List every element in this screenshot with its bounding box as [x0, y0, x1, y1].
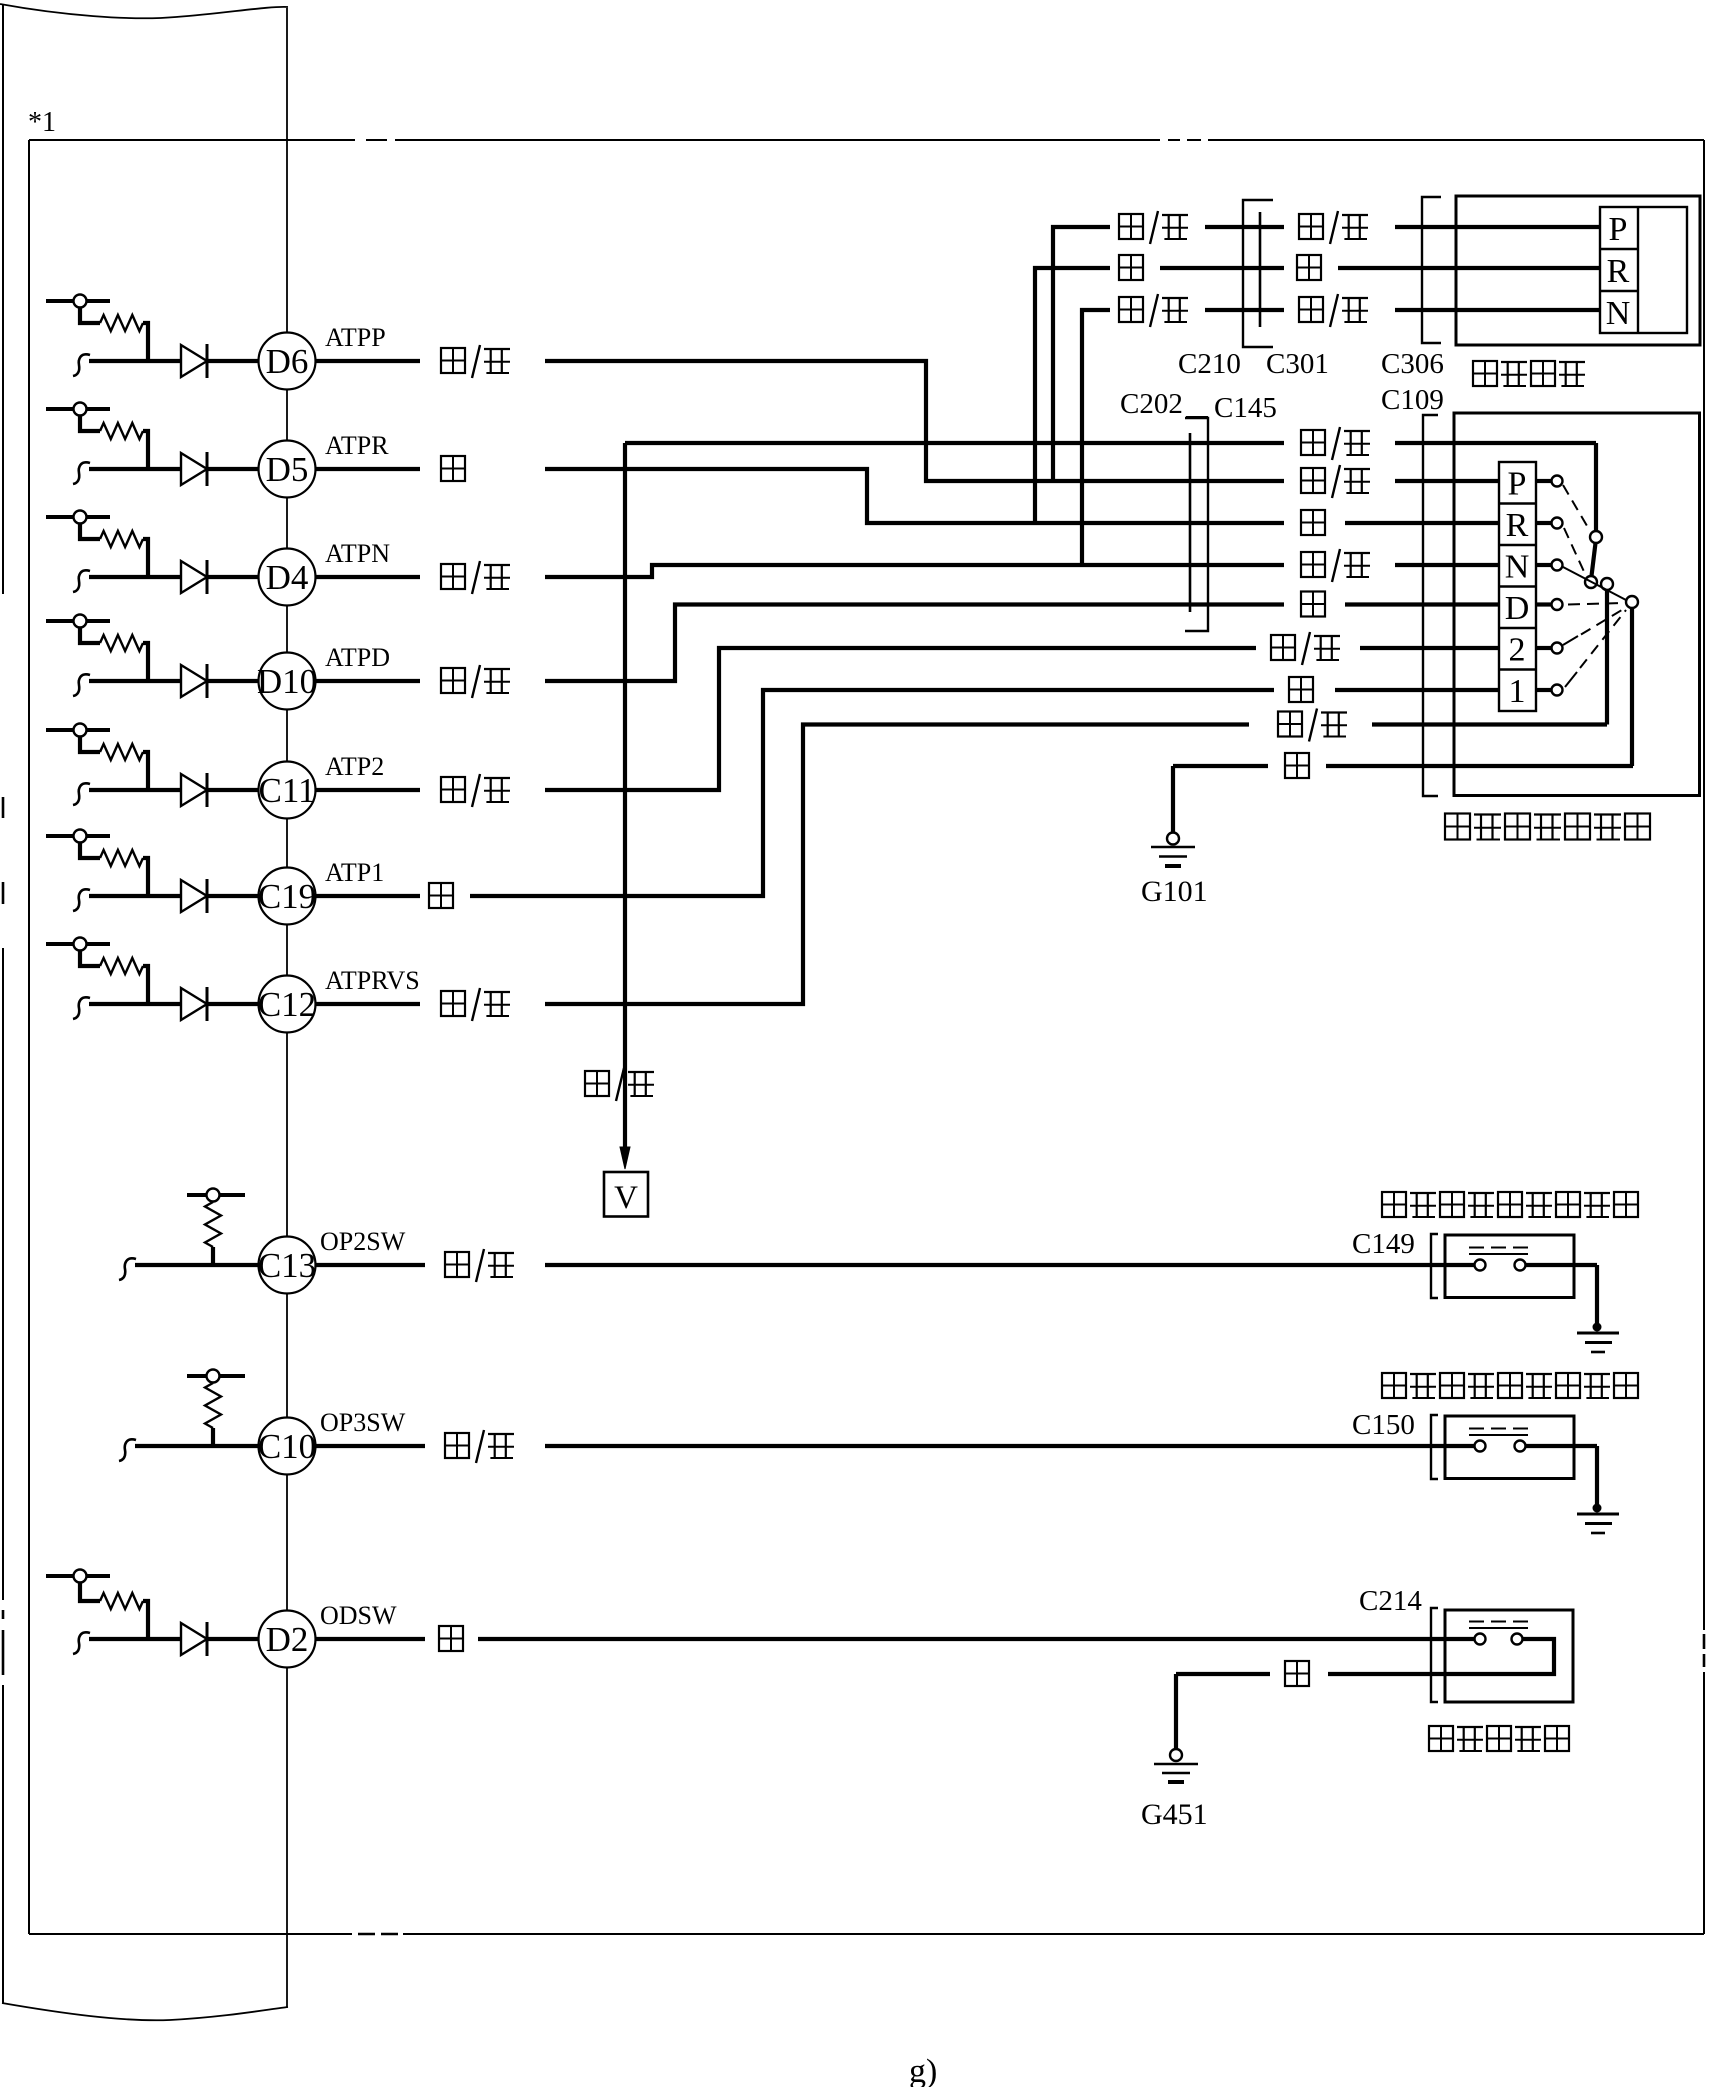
- wire colour label red/white at gear switch: [1278, 712, 1302, 737]
- pin C13 terminal circle on ECU bus: [259, 1237, 316, 1294]
- switch S-C12 tap terminal circle: [74, 938, 87, 951]
- wire yellow into gear position switch: [1345, 602, 1499, 606]
- svg-text:D4: D4: [266, 558, 309, 597]
- wire from R-D4 down to node D4: [143, 539, 148, 577]
- resistor R-C10 (vertical): [205, 1383, 221, 1428]
- wire ODSW green to overdrive switch C214: [478, 1637, 1474, 1641]
- switch S-D4 pull-up tap line: [46, 515, 110, 519]
- pin C11 terminal circle on ECU bus: [259, 762, 316, 819]
- gear switch fixed contact at y=604.5: [1536, 602, 1551, 606]
- wire red/white into gear position switch: [1372, 722, 1607, 726]
- 3rd clutch pressure switch box: [1445, 1416, 1574, 1479]
- resistor R-C13 (vertical): [205, 1202, 221, 1247]
- wire C12 row from switch to diode: [89, 1002, 181, 1006]
- pressure switch bridge bar C150: [1469, 1434, 1528, 1436]
- wire D2 row from switch to diode: [89, 1637, 181, 1641]
- wire D6 ATPP to junction, down and right to gear-switch row P (blue/black): [545, 361, 1284, 481]
- wire colour label black/red at C210 left: [1119, 297, 1143, 322]
- switch S-D4 moving contact hook: [73, 570, 90, 592]
- wire into instrument cluster row2: [1338, 266, 1600, 270]
- pivot circle of rotary selector: [1626, 596, 1638, 608]
- pin D5 terminal circle on ECU bus: [259, 441, 316, 498]
- wire colour label blue/black at gear switch: [1301, 468, 1325, 493]
- svg-text:N: N: [1505, 549, 1530, 586]
- svg-text:OP3SW: OP3SW: [320, 1408, 406, 1437]
- resistor R-C11: [100, 744, 143, 760]
- switch S-C10 tap terminal circle: [207, 1370, 220, 1383]
- switch S-C19 moving contact hook: [73, 889, 90, 911]
- wiper joint circle upper: [1590, 531, 1602, 543]
- switch S-C12 pull-up tap line: [46, 942, 110, 946]
- wire from S-D6 terminal down to resistor R-D6: [80, 308, 100, 324]
- wire OP2SW blue/red to pressure switch C149: [545, 1263, 1474, 1267]
- diode VD-D10: [181, 665, 207, 697]
- wire colour label white at C306 left: [1297, 255, 1321, 280]
- svg-text:C150: C150: [1352, 1409, 1415, 1441]
- wire from S-D4 terminal down to resistor R-D4: [80, 524, 100, 540]
- resistor R-C12: [100, 958, 143, 974]
- svg-text:ATP1: ATP1: [325, 858, 384, 887]
- ground G101 symbol: [1167, 833, 1179, 845]
- torn page strip bottom wavy edge: [2, 2003, 288, 2020]
- ECU bus vertical line: [286, 8, 288, 2007]
- wire blue/white row from test-lead junction to gear switch: [625, 441, 1284, 445]
- wire light-green test lead from blue/white row down to voltmeter: [623, 443, 627, 1148]
- wire C19 row from diode to pin circle: [207, 894, 260, 898]
- wire from R-C12 down to node C12: [143, 966, 148, 1004]
- diode VD-D5: [181, 453, 207, 485]
- wire into instrument cluster row1: [1395, 225, 1600, 229]
- svg-text:C12: C12: [258, 985, 316, 1024]
- wire colour label for D4: [441, 564, 465, 589]
- wire D2 row from diode to pin circle: [207, 1637, 260, 1641]
- diode VD-C19: [181, 880, 207, 912]
- wire from S-C19 terminal down to resistor R-C19: [80, 843, 100, 859]
- svg-text:G451: G451: [1141, 1798, 1208, 1831]
- torn page strip top wavy edge: [0, 4, 288, 18]
- wire colour label green for D2: [439, 1626, 463, 1651]
- red/white riser from wiper down to red/white row: [1605, 590, 1609, 725]
- pin D4 terminal circle on ECU bus: [259, 549, 316, 606]
- pressure switch contacts C149: [1475, 1260, 1486, 1271]
- switch S-C11 moving contact hook: [73, 783, 90, 805]
- svg-text:C301: C301: [1266, 348, 1329, 380]
- rotary selector dashed travel 1: [1565, 672, 1577, 687]
- pin D10 terminal circle on ECU bus: [259, 653, 316, 710]
- wire C11 row from switch to diode: [89, 788, 181, 792]
- svg-text:g): g): [909, 2053, 937, 2087]
- svg-text:OP2SW: OP2SW: [320, 1227, 406, 1256]
- label 2nd-gear clutch pressure switch: [1382, 1192, 1406, 1217]
- transmission gear position switch box: [1454, 413, 1700, 796]
- diode VD-C12: [181, 988, 207, 1020]
- svg-text:R: R: [1607, 253, 1630, 290]
- rotary selector dashed travel P: [1563, 485, 1590, 531]
- wire riser from blue/black row up to connector C210: [1053, 227, 1110, 481]
- wire D10 row from pin circle to colour label: [314, 679, 420, 683]
- svg-text:C13: C13: [258, 1246, 316, 1285]
- wire C19 ATP1 up to gear-switch row 1 (brown): [470, 690, 1274, 896]
- wire C12 row from diode to pin circle: [207, 1002, 260, 1006]
- wire C13 row from switch to pin circle: [135, 1263, 260, 1267]
- ground G451 symbol: [1170, 1749, 1182, 1761]
- switch S-D2 moving contact hook: [73, 1632, 90, 1654]
- switch S-D10 tap terminal circle: [74, 615, 87, 628]
- gear switch fixed contact at y=648: [1536, 646, 1551, 650]
- label instrument cluster assembly: [1473, 361, 1497, 386]
- wire from S-C12 terminal down to resistor R-C12: [80, 951, 100, 967]
- ground symbol at C150: [1593, 1504, 1602, 1513]
- wire from R-D10 down to node D10: [143, 643, 148, 681]
- label transmission gear position switch: [1445, 814, 1470, 840]
- wire from R-C13 to node: [211, 1247, 215, 1265]
- wire C10 row from switch to pin circle: [135, 1444, 260, 1448]
- svg-text:C11: C11: [258, 771, 315, 810]
- rotary selector dashed travel D: [1568, 603, 1623, 605]
- connector C301 mating pin line: [1259, 212, 1262, 327]
- wire white into gear position switch: [1345, 521, 1499, 525]
- wire colour label blue/black at C210 left: [1119, 214, 1143, 239]
- wire stubs through connector C210-C301 row2: [1160, 266, 1284, 270]
- switch S-D10 pull-up tap line: [46, 619, 110, 623]
- wire colour label for D5: [441, 456, 465, 481]
- wire D5 ATPR to junction, down and right to gear-switch row R (white): [545, 469, 1284, 523]
- wire D6 row from pin circle to colour label: [314, 359, 420, 363]
- svg-text:D10: D10: [257, 662, 317, 701]
- wire red/black into gear position switch: [1395, 563, 1499, 567]
- resistor R-D4: [100, 531, 143, 547]
- switch S-C13 pull-up tap line: [187, 1193, 245, 1197]
- svg-text:N: N: [1606, 295, 1631, 332]
- connector C150 half-shell: [1431, 1415, 1438, 1479]
- svg-text:ATP2: ATP2: [325, 752, 384, 781]
- wire from R-D2 down to node D2: [143, 1601, 148, 1639]
- wire D10 row from switch to diode: [89, 679, 181, 683]
- wire from R-C10 to node: [211, 1428, 215, 1446]
- wire C12 ATPRVS up to gear-switch common row (red/white): [545, 725, 1249, 1005]
- svg-text:V: V: [614, 1180, 638, 1216]
- page border right edge with break marks: [1703, 140, 1705, 1630]
- wire colour label black at overdrive switch: [1285, 1661, 1309, 1686]
- wire D4 ATPN with jog up to gear-switch row N (black/red): [545, 565, 1284, 577]
- ground symbol at C149: [1593, 1323, 1602, 1332]
- wire blue/black into gear position switch: [1395, 479, 1499, 483]
- wiper joint circle for red/white riser: [1601, 578, 1613, 590]
- switch S-D5 tap terminal circle: [74, 403, 87, 416]
- gear switch fixed contact at y=523: [1536, 521, 1551, 525]
- voltmeter V box: [604, 1172, 648, 1217]
- wire C19 row from switch to diode: [89, 894, 181, 898]
- svg-text:P: P: [1609, 211, 1628, 248]
- wire stubs through connector C210-C301 row3: [1205, 308, 1284, 312]
- page border left edge: [28, 140, 30, 1934]
- wire D4 row from pin circle to colour label: [314, 575, 420, 579]
- svg-text:C19: C19: [258, 877, 316, 916]
- instrument cluster PRN indicator cells: [1600, 207, 1687, 333]
- wire colour label for D10: [441, 668, 465, 693]
- wire D5 row from diode to pin circle: [207, 467, 260, 471]
- wire colour label white at gear switch: [1301, 510, 1325, 535]
- connector C202 mating pin line: [1189, 433, 1192, 612]
- wire D5 row from pin circle to colour label: [314, 467, 420, 471]
- wire C12 row from pin circle to colour label: [314, 1002, 420, 1006]
- diode VD-C11: [181, 774, 207, 806]
- resistor R-D2: [100, 1593, 143, 1609]
- connector C149 half-shell: [1431, 1234, 1438, 1298]
- switch S-C11 pull-up tap line: [46, 728, 110, 732]
- wire riser from black/red row up to connector C210: [1082, 310, 1110, 565]
- resistor R-D6: [100, 315, 143, 331]
- diode VD-D2: [181, 1623, 207, 1655]
- wire D2 row from pin circle to colour label: [314, 1637, 425, 1641]
- wire black row from ground riser to label: [1173, 764, 1268, 768]
- wire C13 row from pin circle to colour label: [314, 1263, 425, 1267]
- gear switch fixed contact at y=690: [1536, 688, 1551, 692]
- wire D5 row from switch to diode: [89, 467, 181, 471]
- overdrive switch bridge bar: [1469, 1627, 1528, 1629]
- wire from R-C11 down to node C11: [143, 752, 148, 790]
- wiper arm: [1592, 543, 1596, 576]
- connector C306 half-shell: [1422, 197, 1441, 343]
- page border top edge with break marks: [29, 139, 355, 141]
- wire C11 row from pin circle to colour label: [314, 788, 420, 792]
- wire colour label for C11: [441, 777, 465, 802]
- switch S-D5 pull-up tap line: [46, 407, 110, 411]
- svg-text:C306: C306: [1381, 348, 1444, 380]
- wire blue/white into gear position switch: [1395, 441, 1596, 445]
- resistor R-D5: [100, 423, 143, 439]
- svg-text:ATPN: ATPN: [325, 539, 390, 568]
- wire black return from switch to label: [1328, 1672, 1445, 1676]
- wire from R-D6 down to node D6: [143, 323, 148, 361]
- wire D4 row from diode to pin circle: [207, 575, 260, 579]
- switch S-D2 pull-up tap line: [46, 1574, 110, 1578]
- svg-text:ATPD: ATPD: [325, 643, 390, 672]
- 2nd clutch pressure switch box: [1445, 1235, 1574, 1298]
- wire colour label black/red at C306 left: [1299, 297, 1323, 322]
- wire D4 row from switch to diode: [89, 575, 181, 579]
- switch S-C19 pull-up tap line: [46, 834, 110, 838]
- switch S-C12 moving contact hook: [73, 997, 90, 1019]
- switch S-D6 moving contact hook: [73, 354, 90, 376]
- pin C19 terminal circle on ECU bus: [259, 868, 316, 925]
- wire D6 row from diode to pin circle: [207, 359, 260, 363]
- torn page strip left edge: [2, 4, 4, 594]
- black riser from pivot down to black row: [1630, 608, 1634, 766]
- svg-text:C149: C149: [1352, 1228, 1415, 1260]
- svg-text:ATPR: ATPR: [325, 431, 389, 460]
- svg-text:ODSW: ODSW: [320, 1601, 397, 1630]
- page border bottom edge with break marks: [29, 1933, 352, 1935]
- wire colour label white at C210 left: [1119, 255, 1143, 280]
- switch S-C10 pull-up tap line: [187, 1374, 245, 1378]
- overdrive switch box: [1445, 1610, 1573, 1702]
- wire colour label for C13: [445, 1252, 469, 1277]
- svg-text:C10: C10: [258, 1427, 316, 1466]
- pin D6 terminal circle on ECU bus: [259, 333, 316, 390]
- connector C214 half-shell: [1431, 1608, 1438, 1702]
- svg-text:R: R: [1506, 507, 1529, 544]
- svg-text:D6: D6: [266, 342, 309, 381]
- label overdrive switch: [1429, 1726, 1453, 1751]
- connector C145 half-shell: [1185, 418, 1208, 631]
- switch S-D2 tap terminal circle: [74, 1570, 87, 1583]
- overdrive switch contacts: [1475, 1634, 1486, 1645]
- switch S-C13 tap terminal circle: [207, 1189, 220, 1202]
- svg-text:D2: D2: [266, 1620, 309, 1659]
- wire stubs through connector C210-C301 row1: [1205, 225, 1284, 229]
- wire C11 ATP2 up to gear-switch row 2 (green/red): [545, 648, 1256, 790]
- wire black return to ground G451: [1176, 1672, 1270, 1676]
- label 3rd-gear clutch pressure switch: [1382, 1373, 1406, 1398]
- connector C210 half-shell: [1243, 200, 1273, 347]
- svg-text:C109: C109: [1381, 384, 1444, 416]
- wire from R-C19 down to node C19: [143, 858, 148, 896]
- instrument cluster box: [1456, 196, 1700, 345]
- switch S-D4 tap terminal circle: [74, 511, 87, 524]
- rotary selector link N contact to pivot: [1563, 567, 1626, 600]
- svg-text:C210: C210: [1178, 348, 1241, 380]
- switch S-D6 tap terminal circle: [74, 295, 87, 308]
- switch S-C13 moving contact hook: [119, 1258, 136, 1280]
- wire OP3SW blue/white to pressure switch C150: [545, 1444, 1474, 1448]
- rotary selector dashed travel 2: [1563, 636, 1578, 645]
- wire colour label blue/black at C306 left: [1299, 214, 1323, 239]
- switch S-C11 tap terminal circle: [74, 724, 87, 737]
- pin C10 terminal circle on ECU bus: [259, 1418, 316, 1475]
- gear switch PRND21 cell column: [1499, 462, 1536, 711]
- gear switch fixed contact at y=565: [1536, 563, 1551, 567]
- svg-text:C202: C202: [1120, 388, 1183, 420]
- wire from S-D5 terminal down to resistor R-D5: [80, 416, 100, 432]
- svg-text:2: 2: [1509, 632, 1526, 669]
- wire colour label green/red at gear switch: [1271, 635, 1295, 660]
- pin D2 terminal circle on ECU bus: [259, 1611, 316, 1668]
- wire colour label yellow at gear switch: [1301, 592, 1325, 617]
- wire colour label black at gear switch: [1285, 753, 1309, 778]
- wire colour label light/green: [585, 1071, 609, 1096]
- resistor R-C19: [100, 850, 143, 866]
- wire from overdrive switch looping to black return: [1445, 1639, 1554, 1674]
- wire into instrument cluster row3: [1395, 308, 1600, 312]
- wire from S-D10 terminal down to resistor R-D10: [80, 628, 100, 644]
- wire colour label for C12: [441, 991, 465, 1016]
- wire C10 row from pin circle to colour label: [314, 1444, 425, 1448]
- wire from S-C11 terminal down to resistor R-C11: [80, 737, 100, 753]
- pressure switch contacts C150: [1475, 1441, 1486, 1452]
- diode VD-D4: [181, 561, 207, 593]
- switch S-C10 moving contact hook: [119, 1439, 136, 1461]
- resistor R-D10: [100, 635, 143, 651]
- wire colour label red/black at gear switch: [1301, 552, 1325, 577]
- wire D10 row from diode to pin circle: [207, 679, 260, 683]
- wire C19 row from pin circle to colour label: [314, 894, 420, 898]
- wire colour label for D6: [441, 348, 465, 373]
- wire colour label brown at gear switch: [1289, 677, 1313, 702]
- svg-text:D: D: [1505, 590, 1530, 627]
- wire from C150 to ground: [1526, 1444, 1597, 1448]
- svg-text:*1: *1: [28, 107, 56, 138]
- connector C109 half-shell: [1423, 415, 1438, 796]
- svg-text:D5: D5: [266, 450, 309, 489]
- svg-text:ATPP: ATPP: [325, 323, 386, 352]
- switch S-C19 tap terminal circle: [74, 830, 87, 843]
- svg-text:1: 1: [1509, 673, 1526, 710]
- wire from C149 to ground: [1526, 1263, 1597, 1267]
- wire D10 ATPD up to gear-switch row D (yellow): [545, 605, 1284, 682]
- wire black into gear position switch: [1326, 764, 1633, 768]
- wire riser from white row up to connector C210: [1035, 268, 1110, 523]
- gear switch wiper feed riser (blue/white): [1594, 443, 1598, 531]
- wire C11 row from diode to pin circle: [207, 788, 260, 792]
- svg-text:C214: C214: [1359, 1585, 1422, 1617]
- switch S-D6 pull-up tap line: [46, 299, 110, 303]
- rotary selector dashed travel R: [1564, 528, 1586, 576]
- switch S-D10 moving contact hook: [73, 674, 90, 696]
- wiper joint circle lower: [1585, 576, 1597, 588]
- wire colour label blue/white at gear switch: [1301, 430, 1325, 455]
- switch S-D5 moving contact hook: [73, 462, 90, 484]
- ground lead down to G101: [1171, 766, 1175, 832]
- diode VD-D6: [181, 345, 207, 377]
- svg-text:G101: G101: [1141, 875, 1208, 908]
- wire colour label for C19: [429, 883, 453, 908]
- pin C12 terminal circle on ECU bus: [259, 976, 316, 1033]
- wire from R-D5 down to node D5: [143, 431, 148, 469]
- wire colour label for C10: [445, 1433, 469, 1458]
- gear switch fixed contact at y=481: [1536, 479, 1551, 483]
- arrowhead into voltmeter: [620, 1147, 630, 1169]
- svg-text:ATPRVS: ATPRVS: [325, 966, 420, 995]
- wire D6 row from switch to diode: [89, 359, 181, 363]
- svg-text:C145: C145: [1214, 392, 1277, 424]
- wire green/red into gear position switch: [1360, 646, 1499, 650]
- wire from S-D2 terminal down to resistor R-D2: [80, 1583, 100, 1602]
- svg-text:P: P: [1508, 466, 1527, 503]
- pressure switch bridge bar C149: [1469, 1253, 1528, 1255]
- wire brown into gear position switch: [1335, 688, 1499, 692]
